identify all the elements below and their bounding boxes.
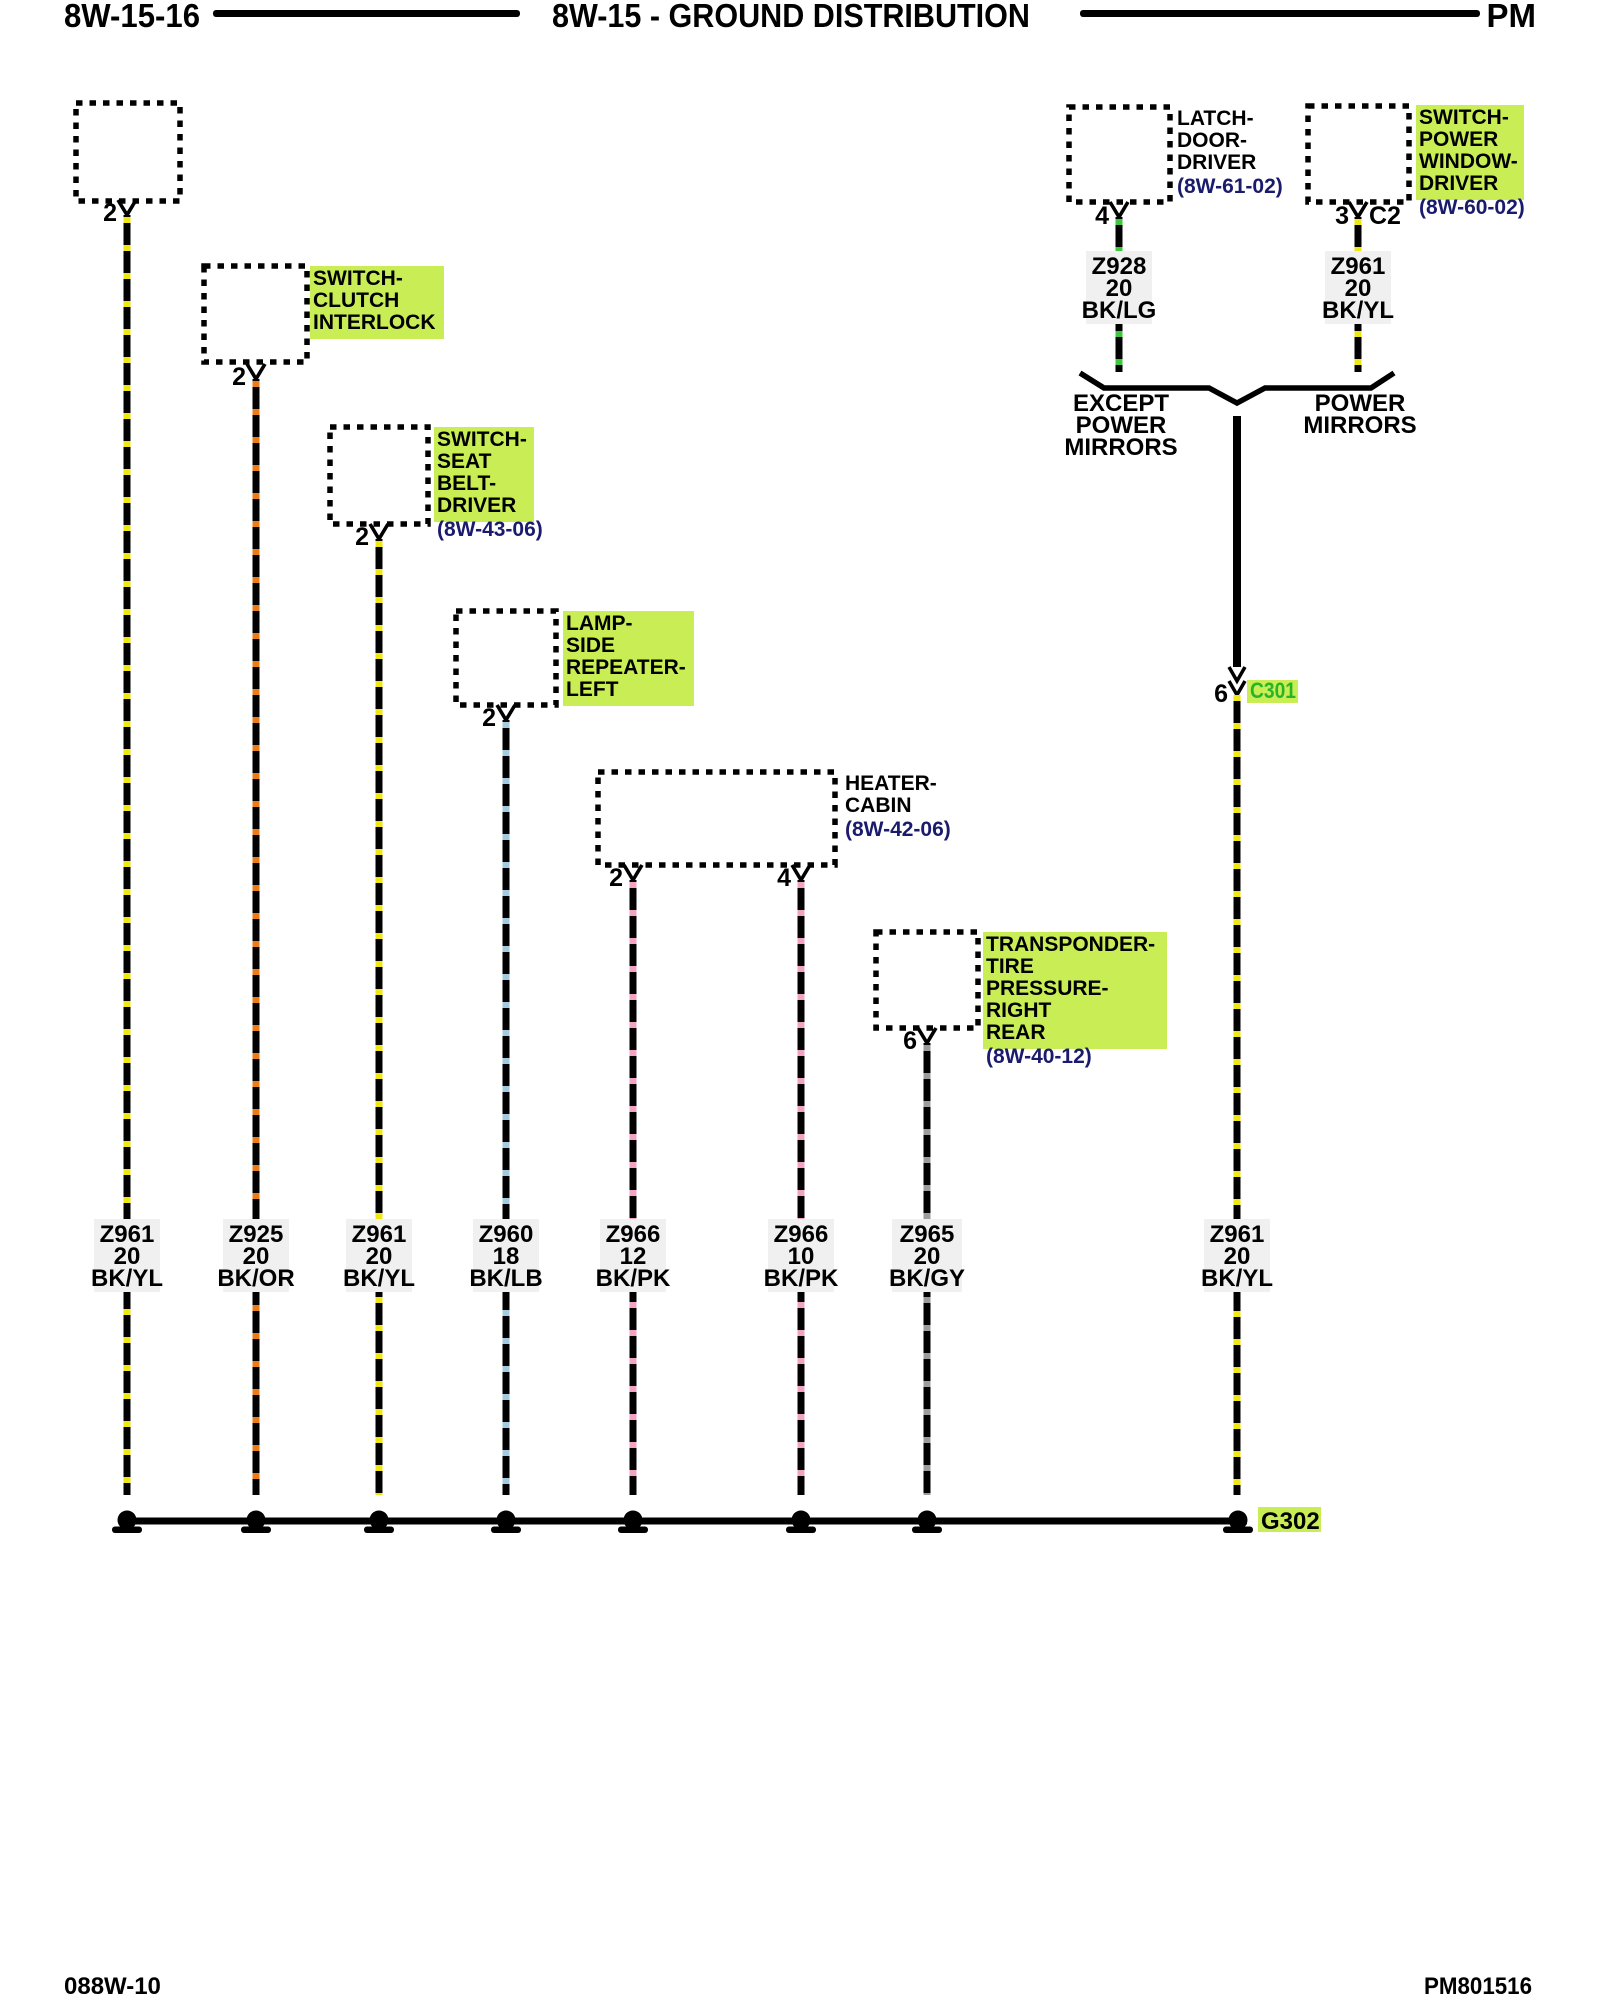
wire Z961 20 BK/YL col3 bbox=[376, 539, 383, 1495]
svg-text:C301: C301 bbox=[1250, 678, 1296, 703]
svg-text:SIDE: SIDE bbox=[566, 634, 615, 657]
svg-text:BK/YL: BK/YL bbox=[1201, 1265, 1273, 1292]
svg-text:C2: C2 bbox=[1369, 202, 1401, 230]
svg-text:REPEATER-: REPEATER- bbox=[566, 656, 686, 679]
svg-text:POWER: POWER bbox=[1419, 128, 1498, 151]
svg-text:2: 2 bbox=[482, 704, 496, 732]
svg-text:4: 4 bbox=[777, 864, 791, 892]
pin arrow C301 lower arrow bbox=[1229, 681, 1245, 695]
ground name G302 bbox=[1258, 1507, 1321, 1532]
connector box lamp-side repeater-left bbox=[456, 611, 556, 705]
connector box latch-door-driver bbox=[1069, 107, 1170, 202]
svg-text:8W-15-16: 8W-15-16 bbox=[64, 0, 200, 34]
wire label Z965 20 BK/GY bbox=[892, 1219, 962, 1292]
svg-text:REAR: REAR bbox=[986, 1021, 1046, 1044]
svg-text:INTERLOCK: INTERLOCK bbox=[313, 311, 436, 334]
wire label Z961 20 BK/YL bbox=[346, 1219, 412, 1292]
svg-text:PM: PM bbox=[1487, 0, 1537, 34]
svg-text:2: 2 bbox=[355, 523, 369, 551]
wire label Z928 20 BK/LG bbox=[1086, 251, 1152, 324]
wire label Z925 20 BK/OR bbox=[223, 1219, 289, 1292]
wire Z961 20 BK/YL stub bbox=[1355, 217, 1362, 372]
pin arrow col1 pin 2 bbox=[118, 200, 136, 215]
bus junction at x=633 bbox=[624, 1511, 643, 1530]
pin arrow C301 upper arrow bbox=[1229, 667, 1245, 681]
svg-text:SWITCH-: SWITCH- bbox=[313, 267, 403, 290]
svg-text:8W-15 - GROUND DISTRIBUTION: 8W-15 - GROUND DISTRIBUTION bbox=[552, 0, 1030, 34]
svg-text:SWITCH-: SWITCH- bbox=[437, 428, 527, 451]
wire Z928 20 BK/LG stub bbox=[1116, 217, 1123, 372]
svg-text:G302: G302 bbox=[1261, 1508, 1320, 1535]
bus junction at x=506 bbox=[497, 1511, 516, 1530]
svg-text:MIRRORS: MIRRORS bbox=[1303, 412, 1416, 439]
component label highlight bbox=[1416, 105, 1524, 200]
svg-text:BK/LB: BK/LB bbox=[469, 1265, 542, 1292]
svg-text:BK/PK: BK/PK bbox=[764, 1265, 839, 1292]
header rule left bbox=[213, 10, 520, 17]
svg-text:BK/PK: BK/PK bbox=[596, 1265, 671, 1292]
pin arrow col2 pin 2 bbox=[247, 364, 265, 379]
pin arrow latch pin 4 bbox=[1110, 202, 1128, 217]
connector box switch-clutch interlock bbox=[204, 266, 307, 362]
wire Z925 20 BK/OR col2 bbox=[253, 379, 260, 1495]
svg-text:SWITCH-: SWITCH- bbox=[1419, 106, 1509, 129]
svg-text:BK/OR: BK/OR bbox=[217, 1265, 294, 1292]
component label highlight bbox=[563, 611, 694, 706]
svg-text:6: 6 bbox=[1214, 680, 1228, 708]
wire Z960 18 BK/LB col4 bbox=[503, 720, 510, 1495]
wire label Z961 20 BK/YL bbox=[1325, 251, 1391, 324]
in-line connector label C301 bbox=[1247, 680, 1298, 703]
component label highlight bbox=[434, 427, 534, 522]
svg-text:BK/LG: BK/LG bbox=[1082, 297, 1157, 324]
svg-text:WINDOW-: WINDOW- bbox=[1419, 150, 1518, 173]
svg-text:6: 6 bbox=[903, 1027, 917, 1055]
svg-text:BK/YL: BK/YL bbox=[1322, 297, 1394, 324]
wire label Z966 12 BK/PK bbox=[600, 1219, 666, 1292]
wire label Z960 18 BK/LB bbox=[473, 1219, 539, 1292]
svg-text:088W-10: 088W-10 bbox=[64, 1973, 161, 2000]
pin arrow col3 pin 2 bbox=[370, 524, 388, 539]
bus junction at x=801 bbox=[792, 1511, 811, 1530]
wire label Z961 20 BK/YL bbox=[94, 1219, 160, 1292]
svg-text:HEATER-: HEATER- bbox=[845, 772, 937, 795]
component label highlight bbox=[310, 266, 444, 339]
svg-text:PM801516: PM801516 bbox=[1424, 1973, 1532, 2000]
svg-text:CLUTCH: CLUTCH bbox=[313, 289, 399, 312]
svg-text:RIGHT: RIGHT bbox=[986, 999, 1052, 1022]
component label highlight bbox=[983, 932, 1167, 1049]
pin arrow heater pin 4 bbox=[792, 865, 810, 880]
connector box switch-power window-driver bbox=[1308, 106, 1409, 202]
wire Z966 12 BK/PK col5 bbox=[630, 880, 637, 1495]
bus junction at x=927 bbox=[918, 1511, 937, 1530]
connector box heater-cabin bbox=[598, 772, 835, 865]
option merge bracket bbox=[1080, 373, 1394, 403]
wire Z965 20 BK/GY col7 bbox=[924, 1043, 931, 1495]
svg-text:MIRRORS: MIRRORS bbox=[1064, 434, 1177, 461]
wire Z966 10 BK/PK col6 bbox=[798, 880, 805, 1495]
svg-text:TIRE: TIRE bbox=[986, 955, 1034, 978]
pin arrow heater pin 2 bbox=[624, 865, 642, 880]
wire label Z961 20 BK/YL bbox=[1204, 1219, 1270, 1292]
connector box transponder-tire pressure-right rear bbox=[876, 932, 978, 1028]
svg-text:TRANSPONDER-: TRANSPONDER- bbox=[986, 933, 1155, 956]
connector box switch-seat belt-driver bbox=[330, 427, 428, 524]
svg-text:LATCH-: LATCH- bbox=[1177, 107, 1254, 130]
svg-text:(8W-60-02): (8W-60-02) bbox=[1419, 196, 1525, 219]
wire label Z966 10 BK/PK bbox=[768, 1219, 834, 1292]
svg-text:BELT-: BELT- bbox=[437, 472, 496, 495]
svg-text:BK/YL: BK/YL bbox=[343, 1265, 415, 1292]
svg-text:PRESSURE-: PRESSURE- bbox=[986, 977, 1109, 1000]
bus junction at x=256 bbox=[247, 1511, 266, 1530]
bus junction at x=379 bbox=[370, 1511, 389, 1530]
bus junction at x=1238 bbox=[1229, 1511, 1248, 1530]
svg-text:DOOR-: DOOR- bbox=[1177, 129, 1247, 152]
header rule right bbox=[1080, 10, 1480, 17]
merged wire Z961 (solid) bbox=[1233, 416, 1241, 667]
svg-text:LEFT: LEFT bbox=[566, 678, 619, 701]
svg-text:LAMP-: LAMP- bbox=[566, 612, 633, 635]
pin arrow window pin 3 bbox=[1349, 202, 1367, 217]
pin arrow col4 pin 2 bbox=[497, 705, 515, 720]
svg-text:(8W-40-12): (8W-40-12) bbox=[986, 1045, 1092, 1068]
wire Z961 20 BK/YL col1 bbox=[124, 215, 131, 1495]
svg-text:4: 4 bbox=[1095, 202, 1109, 230]
ground bus bbox=[124, 1518, 1247, 1525]
svg-text:2: 2 bbox=[232, 363, 246, 391]
bus junction at x=127 bbox=[118, 1511, 137, 1530]
wire Z961 20 BK/YL col8 bbox=[1234, 695, 1241, 1495]
svg-text:(8W-61-02): (8W-61-02) bbox=[1177, 175, 1283, 198]
svg-text:BK/GY: BK/GY bbox=[889, 1265, 965, 1292]
svg-text:(8W-42-06): (8W-42-06) bbox=[845, 818, 951, 841]
svg-text:CABIN: CABIN bbox=[845, 794, 912, 817]
svg-text:DRIVER: DRIVER bbox=[437, 494, 516, 517]
pin arrow transponder pin 6 bbox=[918, 1028, 936, 1043]
svg-text:SEAT: SEAT bbox=[437, 450, 492, 473]
svg-text:2: 2 bbox=[609, 864, 623, 892]
connector box (unlabeled, top-left) bbox=[76, 103, 180, 201]
svg-text:3: 3 bbox=[1335, 202, 1349, 230]
svg-text:(8W-43-06): (8W-43-06) bbox=[437, 518, 543, 541]
svg-text:DRIVER: DRIVER bbox=[1177, 151, 1256, 174]
svg-text:DRIVER: DRIVER bbox=[1419, 172, 1498, 195]
svg-text:BK/YL: BK/YL bbox=[91, 1265, 163, 1292]
svg-text:2: 2 bbox=[103, 199, 117, 227]
